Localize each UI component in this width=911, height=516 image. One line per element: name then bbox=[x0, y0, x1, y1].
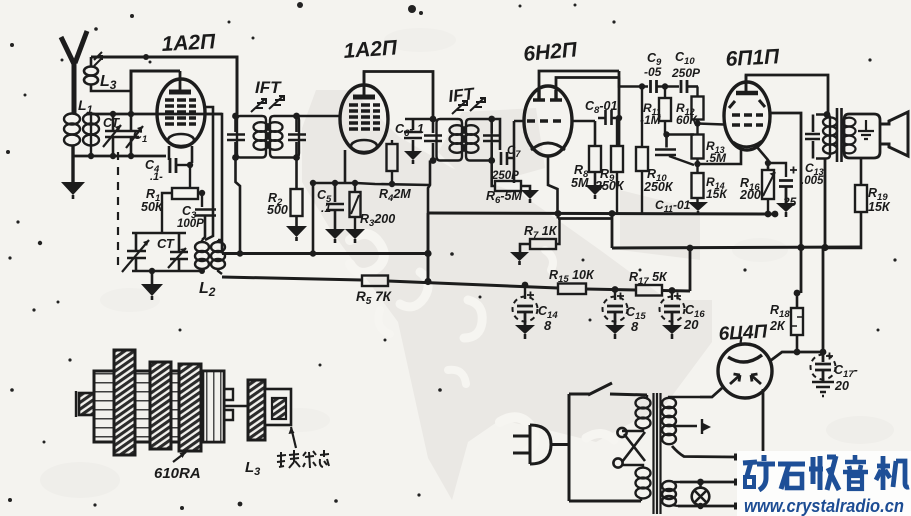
node R16 bottom on heater bus bbox=[765, 211, 772, 218]
wire R2 to ground bbox=[295, 216, 298, 226]
tube V2 top cap lead bbox=[363, 72, 366, 98]
wire R6 to ground bbox=[521, 186, 530, 190]
winding band 2 bbox=[150, 362, 171, 449]
svg-text:610RA: 610RA bbox=[154, 465, 201, 482]
coil L1 secondary bbox=[83, 114, 99, 157]
node x428 on screen bus bbox=[424, 250, 431, 257]
resistor R4 bbox=[387, 140, 398, 184]
wire grid riser bbox=[131, 71, 180, 114]
wire C9 feed bbox=[619, 78, 648, 87]
winding band 1 bbox=[114, 350, 135, 455]
wire HV bottom to box bbox=[672, 446, 736, 457]
wire IFT1 secondary top to V2 grid bbox=[297, 115, 341, 118]
electrolytic bypass capacitor 25 bbox=[779, 167, 797, 204]
node bus heater at 558 bbox=[555, 210, 562, 217]
ground (R14) bbox=[688, 202, 708, 215]
IFT1 secondary coil bbox=[268, 122, 283, 150]
ground (R7) bbox=[510, 252, 529, 265]
IFT2 secondary coil bbox=[464, 125, 479, 153]
wire heater rail right segment bbox=[356, 183, 430, 185]
tube V1 anode bar bbox=[169, 90, 191, 95]
tube V1 cathode ellipse bbox=[168, 134, 194, 146]
node wire stub 2 bbox=[734, 479, 742, 486]
watermark logo kuang bbox=[743, 455, 775, 490]
node top bus bbox=[143, 54, 149, 60]
rectifier V5 anode arc bbox=[728, 355, 762, 362]
IFT1 tuning arrows bbox=[251, 96, 284, 112]
node C8 right bbox=[616, 115, 622, 121]
IFT2 tuning arrows bbox=[452, 98, 485, 114]
capacitor C3 bbox=[195, 210, 216, 241]
ground (cathode cap) bbox=[776, 203, 796, 217]
svg-text:15К: 15К bbox=[706, 187, 728, 201]
svg-text:IFT: IFT bbox=[447, 84, 476, 106]
coil former body bbox=[94, 371, 224, 442]
wire V4 screen to B+ riser bbox=[770, 113, 801, 293]
output transformer primary coil bbox=[823, 117, 837, 153]
capacitor C10 bbox=[681, 80, 687, 93]
node IFT1 bottom right bbox=[293, 154, 300, 161]
ground (R6) bbox=[521, 190, 539, 203]
bus AVC continues 3 bbox=[662, 289, 690, 293]
oscillator tank box top wire bbox=[132, 232, 186, 235]
capacitor C9 bbox=[651, 80, 657, 93]
resistor R3 (adjustable) bbox=[350, 183, 361, 229]
node lamp tap bbox=[697, 479, 704, 486]
bus AVC line lower bbox=[222, 277, 362, 280]
trimmer CT top bbox=[103, 114, 124, 156]
svg-text:15К: 15К bbox=[868, 200, 891, 214]
svg-text:www.crystalradio.cn: www.crystalradio.cn bbox=[744, 496, 904, 516]
svg-text:.5М: .5М bbox=[706, 151, 727, 165]
tube V4 6P1P envelope bbox=[724, 82, 770, 150]
tube V3 anode left bbox=[533, 90, 545, 100]
ground (R2) bbox=[286, 226, 307, 241]
transformer T primary upper bbox=[622, 395, 651, 431]
electrolytic C15 bbox=[603, 293, 628, 326]
capacitor C7 bbox=[501, 152, 514, 165]
capacitor C11 bbox=[655, 135, 694, 166]
node R11 top bbox=[662, 83, 668, 89]
resistor R15 bbox=[558, 284, 586, 295]
wire R13 bottom to V4 cathode bbox=[698, 150, 742, 164]
wire C9 to C10 bbox=[657, 85, 680, 88]
bus AVC continues 2 bbox=[586, 289, 636, 290]
speaker box bbox=[844, 114, 880, 158]
node R10 top bbox=[639, 83, 645, 89]
wire C15 stem bbox=[614, 290, 616, 301]
watermark logo ji bbox=[876, 456, 909, 490]
wire C17 riser bbox=[822, 248, 825, 352]
node C16 tap bbox=[669, 287, 676, 294]
transformer T secondary heater bbox=[662, 481, 680, 506]
ground (C5) bbox=[325, 229, 345, 243]
svg-text:1А2П: 1А2П bbox=[343, 36, 399, 63]
node IFT2 bottom left bbox=[430, 157, 437, 164]
node osc ground tap bbox=[149, 268, 155, 274]
iron core inner bbox=[272, 398, 286, 419]
tube V4 top cap lead bbox=[745, 75, 748, 92]
node C15 tap bbox=[612, 286, 619, 293]
capacitor C8 bbox=[598, 110, 619, 125]
resistor R18 bbox=[791, 293, 803, 352]
wire tank bottom bbox=[73, 155, 166, 158]
wire OT bottom down to bus bbox=[824, 159, 827, 249]
node x690 on B+ bbox=[687, 245, 694, 252]
node C17 top bbox=[820, 349, 827, 356]
power switch bbox=[569, 383, 647, 395]
oscillator tank box bottom wire bbox=[132, 270, 202, 273]
tube V2 grid dashes bbox=[349, 105, 380, 129]
svg-text:1А2П: 1А2П bbox=[161, 30, 217, 56]
IFT2 secondary box bbox=[466, 119, 492, 161]
transformer T core bbox=[654, 393, 661, 514]
wire left rail down to bus bbox=[312, 183, 315, 254]
svg-text:20: 20 bbox=[834, 379, 849, 393]
wire R7 left to ground bbox=[520, 244, 530, 252]
winding band 3 bbox=[179, 364, 201, 451]
resistor R14 bbox=[692, 173, 704, 202]
ground (R8) bbox=[585, 185, 605, 199]
coil former shaft bbox=[79, 393, 94, 415]
node R3 top bbox=[352, 180, 358, 186]
capacitor C6 bbox=[404, 119, 422, 151]
ground (C6) bbox=[404, 151, 422, 164]
tube V3 6N2P envelope bbox=[524, 86, 572, 156]
node L2 left bottom bbox=[199, 268, 205, 274]
tube V3 cathode arc bbox=[531, 143, 565, 150]
node busC at IFT1 drop bbox=[237, 250, 243, 256]
node R13 bottom bbox=[694, 161, 700, 167]
svg-text:8: 8 bbox=[544, 318, 552, 333]
wire R1 left bbox=[162, 193, 172, 233]
coil L1 primary bbox=[64, 114, 80, 146]
wire C4 to R1 bbox=[189, 165, 191, 188]
svg-text:.1: .1 bbox=[321, 201, 331, 215]
svg-text:250К: 250К bbox=[643, 180, 674, 194]
watermark logo yin bbox=[843, 455, 868, 489]
tube V3 grid dashed bbox=[527, 119, 561, 122]
bus heater line bbox=[428, 213, 775, 214]
ground (C16) bbox=[662, 325, 682, 339]
wire C6 tap bbox=[405, 118, 433, 121]
svg-text:-05: -05 bbox=[644, 65, 662, 79]
node B+ at screen riser bbox=[797, 244, 804, 251]
node V2 left rail bbox=[310, 180, 316, 186]
bus B+ line right bbox=[612, 247, 862, 248]
tube V4 cathode arc bbox=[733, 141, 762, 147]
svg-text:20: 20 bbox=[683, 317, 699, 332]
node IFT1 bottom left bbox=[232, 154, 239, 161]
svg-text:2К: 2К bbox=[769, 319, 786, 333]
chassis ground (center tap) bbox=[702, 419, 711, 434]
svg-text:IFT: IFT bbox=[255, 78, 282, 97]
tube V1 1A2P envelope bbox=[157, 79, 205, 147]
svg-text:СТ: СТ bbox=[103, 116, 121, 130]
resistor R12 bbox=[692, 87, 704, 135]
IFT1 secondary tuning capacitor bbox=[288, 116, 306, 158]
resistor R19 bbox=[825, 158, 867, 248]
IFT1 primary coil bbox=[254, 122, 269, 150]
L3 former band bbox=[248, 380, 265, 440]
svg-text:.005: .005 bbox=[801, 175, 824, 187]
node bus heater at 612 bbox=[609, 210, 616, 217]
capacitor C4 bbox=[170, 158, 192, 173]
trimmer CT bottom bbox=[168, 233, 188, 271]
svg-text:8: 8 bbox=[631, 319, 639, 334]
ground (R3) bbox=[345, 229, 365, 243]
wire HV center tap bbox=[674, 425, 697, 427]
resistor R13 bbox=[692, 135, 704, 174]
node tank-top-C1 bbox=[128, 111, 134, 117]
tube V2 anode bar bbox=[353, 95, 375, 100]
node OT top bbox=[824, 111, 831, 118]
ground (C15) bbox=[605, 325, 625, 339]
capacitor C13 bbox=[805, 115, 820, 159]
wire C8 left to R8 bbox=[572, 121, 595, 146]
node tank-bottom-C1 bbox=[128, 153, 134, 159]
node C14 tap bbox=[522, 282, 529, 289]
wire heater top lead bbox=[680, 481, 736, 484]
resistor R2 bbox=[291, 189, 303, 216]
svg-text:С11-01: С11-01 bbox=[655, 198, 691, 214]
wire heater bottom lead bbox=[678, 505, 736, 508]
transformer T primary lower bbox=[622, 465, 651, 501]
rectifier V5 heater legs bbox=[730, 374, 761, 384]
svg-text:25: 25 bbox=[782, 195, 797, 209]
wire IFT2 primary bottom down bbox=[428, 161, 430, 283]
wire R1 to C3 bbox=[198, 193, 202, 207]
node IFT2 top left bbox=[430, 116, 437, 123]
wire C16 stem bbox=[671, 291, 673, 301]
wire tank top bbox=[86, 113, 222, 116]
wire IFT2 secondary bottom to R6 bbox=[492, 161, 495, 187]
wire C10 to R12 bbox=[687, 85, 698, 88]
wire R7 right riser bbox=[556, 219, 560, 245]
ground (antenna) bbox=[61, 182, 85, 199]
tube V4 grid dashes bbox=[732, 115, 763, 125]
IFT1 primary tuning capacitor bbox=[227, 116, 245, 158]
wire V2 left heater rail bbox=[313, 182, 356, 185]
resistor R9 bbox=[611, 118, 623, 213]
svg-text:6Н2П: 6Н2П bbox=[522, 38, 578, 66]
IFT1 secondary box bbox=[270, 116, 299, 158]
node wire stub 3 bbox=[734, 503, 742, 510]
node tank-bottom-CT bbox=[110, 153, 116, 159]
wire riser x690 bbox=[689, 248, 692, 291]
wire V3 anode rails bbox=[539, 71, 619, 146]
wire rectifier B+ line bbox=[770, 352, 823, 361]
wire top bus from L3 to IFT1 bbox=[91, 57, 237, 116]
node R16 top bbox=[765, 160, 771, 166]
electrolytic C16 bbox=[660, 293, 685, 326]
svg-text:СТ: СТ bbox=[157, 236, 175, 251]
svg-text:250Р: 250Р bbox=[671, 66, 701, 80]
resistor R10 bbox=[636, 87, 648, 214]
bus jog segment bbox=[558, 213, 612, 219]
tube V2 1A2P envelope bbox=[340, 85, 388, 153]
coil L3 bbox=[84, 52, 131, 91]
tube V2 cathode ellipse bbox=[351, 140, 377, 152]
wire bus drop at 612 bbox=[611, 213, 614, 248]
axis link bbox=[224, 405, 248, 407]
IFT2 primary coil bbox=[450, 125, 465, 153]
resistor R16 (adjustable) bbox=[762, 170, 775, 214]
ground (speaker frame) bbox=[858, 120, 874, 139]
svg-text:250К: 250К bbox=[594, 179, 625, 193]
wire riser x428 bbox=[427, 213, 430, 282]
svg-text:.1-: .1- bbox=[150, 171, 163, 183]
bus screen line left bbox=[222, 252, 428, 255]
voltage selector (scissors) bbox=[613, 428, 645, 468]
label iron core (tie fen xin) bbox=[277, 450, 329, 468]
tube V1 top cap lead bbox=[179, 71, 182, 92]
output transformer primary box bbox=[816, 115, 830, 159]
tube V4 beam plates bbox=[729, 100, 765, 108]
wire grid to tube V4 bbox=[698, 124, 725, 125]
bus AVC continues bbox=[388, 281, 558, 288]
tube V1 bottom leads bbox=[169, 146, 192, 163]
node C4 out bbox=[187, 162, 193, 168]
tube V4 anode bar bbox=[736, 91, 758, 96]
IFT2 primary tuning capacitor bbox=[424, 119, 442, 161]
ground (C17) bbox=[812, 382, 834, 396]
resistor R17 bbox=[636, 285, 662, 296]
node IFT1 top right bbox=[293, 113, 300, 120]
resistor R6 bbox=[495, 181, 521, 191]
wire R8 down bbox=[594, 172, 597, 185]
wire rectifier cathode down bbox=[762, 389, 765, 451]
wire IFT1 primary bottom down to bus bbox=[236, 158, 241, 254]
output transformer core bbox=[837, 108, 842, 162]
speaker horn bbox=[880, 112, 908, 156]
wire plug riser bbox=[568, 394, 571, 501]
node tank-bottom-L1 bbox=[88, 153, 94, 159]
node tank-top-CT bbox=[110, 111, 116, 117]
pilot lamp bbox=[692, 482, 710, 509]
IFT2 primary box bbox=[437, 119, 463, 161]
electrolytic C14 bbox=[513, 292, 538, 326]
resistor R1 bbox=[172, 188, 198, 199]
wire IFT1 secondary bottom to R2 bbox=[295, 158, 298, 190]
node IFT1 top left bbox=[232, 113, 239, 120]
coil L2 right winding bbox=[211, 240, 225, 274]
antenna bbox=[61, 31, 87, 113]
wire grid riser V3 bbox=[514, 121, 524, 183]
wire tube V1 anode to osc coil bbox=[204, 107, 213, 240]
node busC at tube2 drop bbox=[310, 250, 316, 256]
svg-text:5М: 5М bbox=[571, 176, 589, 190]
wire V2 top cap loop to IFT2 bbox=[364, 72, 433, 120]
ground (oscillator) bbox=[141, 271, 163, 300]
variable capacitor C1 bbox=[124, 114, 143, 156]
wire antenna to ground bbox=[71, 146, 74, 182]
transformer T secondary HV bbox=[662, 397, 700, 444]
tube V3 anode right bbox=[550, 90, 562, 100]
node R11 bottom tap bbox=[663, 131, 669, 137]
node R18 top bbox=[794, 290, 801, 297]
svg-text:6П1П: 6П1П bbox=[725, 45, 781, 71]
rectifier V5 6Ts4P envelope bbox=[718, 344, 772, 398]
variable capacitor C (osc gang) bbox=[122, 233, 149, 272]
svg-text:200: 200 bbox=[739, 188, 761, 202]
node wire stub 1 bbox=[734, 454, 742, 461]
wire V2 bottom left lead bbox=[344, 150, 347, 183]
watermark logo shou bbox=[809, 456, 839, 490]
wire IFT2 secondary top to C7 bbox=[492, 119, 500, 150]
tube V1 grid dashes bbox=[165, 100, 196, 124]
end cap tabs bbox=[224, 389, 233, 420]
svg-text:60К: 60К bbox=[676, 113, 698, 127]
band pointer arrow bbox=[173, 452, 186, 462]
svg-text:250Р: 250Р bbox=[491, 170, 519, 182]
node IFT2 top right bbox=[488, 116, 495, 123]
node x428 on AVC bus bbox=[424, 278, 431, 285]
resistor R8 bbox=[589, 146, 601, 172]
wire V3 cathode down bbox=[548, 156, 558, 213]
watermark logo shi bbox=[778, 464, 805, 489]
capacitor C5 bbox=[326, 180, 344, 229]
iron core tube bbox=[265, 389, 291, 425]
svg-text:100Р: 100Р bbox=[177, 218, 204, 230]
watermark white box bbox=[737, 451, 911, 516]
node B+ at OT riser bbox=[821, 244, 828, 251]
gang dashed link bbox=[117, 152, 119, 272]
body end cap bbox=[203, 371, 224, 442]
core pointer arrow bbox=[291, 427, 296, 448]
wire C14 stem bbox=[524, 285, 526, 299]
wire V4 cathode to R16 bbox=[757, 147, 768, 170]
resistor R5 bbox=[362, 276, 388, 287]
svg-text:50К: 50К bbox=[141, 200, 164, 214]
wire R16 top to C18 electrolytic bbox=[768, 163, 786, 177]
node IFT2 bottom right bbox=[488, 157, 495, 164]
svg-text:500: 500 bbox=[267, 203, 288, 217]
node R18 bottom bbox=[794, 349, 801, 356]
mains plug bbox=[513, 425, 569, 464]
svg-text:-1М: -1М bbox=[640, 113, 662, 127]
node heater bus end bbox=[772, 211, 779, 218]
resistor R11 bbox=[659, 87, 694, 135]
ground (C14) bbox=[515, 325, 535, 339]
coil L2 left winding bbox=[195, 240, 209, 271]
node R12 bottom / V4 grid bbox=[694, 120, 700, 126]
electrolytic C17 bbox=[811, 352, 836, 382]
speaker voice coil bbox=[843, 118, 856, 154]
wire primary bottom bbox=[569, 500, 641, 503]
IFT1 primary box bbox=[237, 116, 266, 158]
resistor R7 bbox=[530, 239, 556, 249]
svg-text:6Ц4П: 6Ц4П bbox=[718, 321, 768, 345]
wire V4 plate to output bbox=[746, 75, 828, 114]
node R4 bottom bbox=[389, 181, 395, 187]
wire tank-top feedthrough to L2 bbox=[204, 114, 222, 254]
node R1 right bbox=[199, 190, 205, 196]
IFT2 secondary tuning capacitor bbox=[483, 119, 501, 161]
wire HV to rectifier plate bbox=[700, 388, 722, 397]
